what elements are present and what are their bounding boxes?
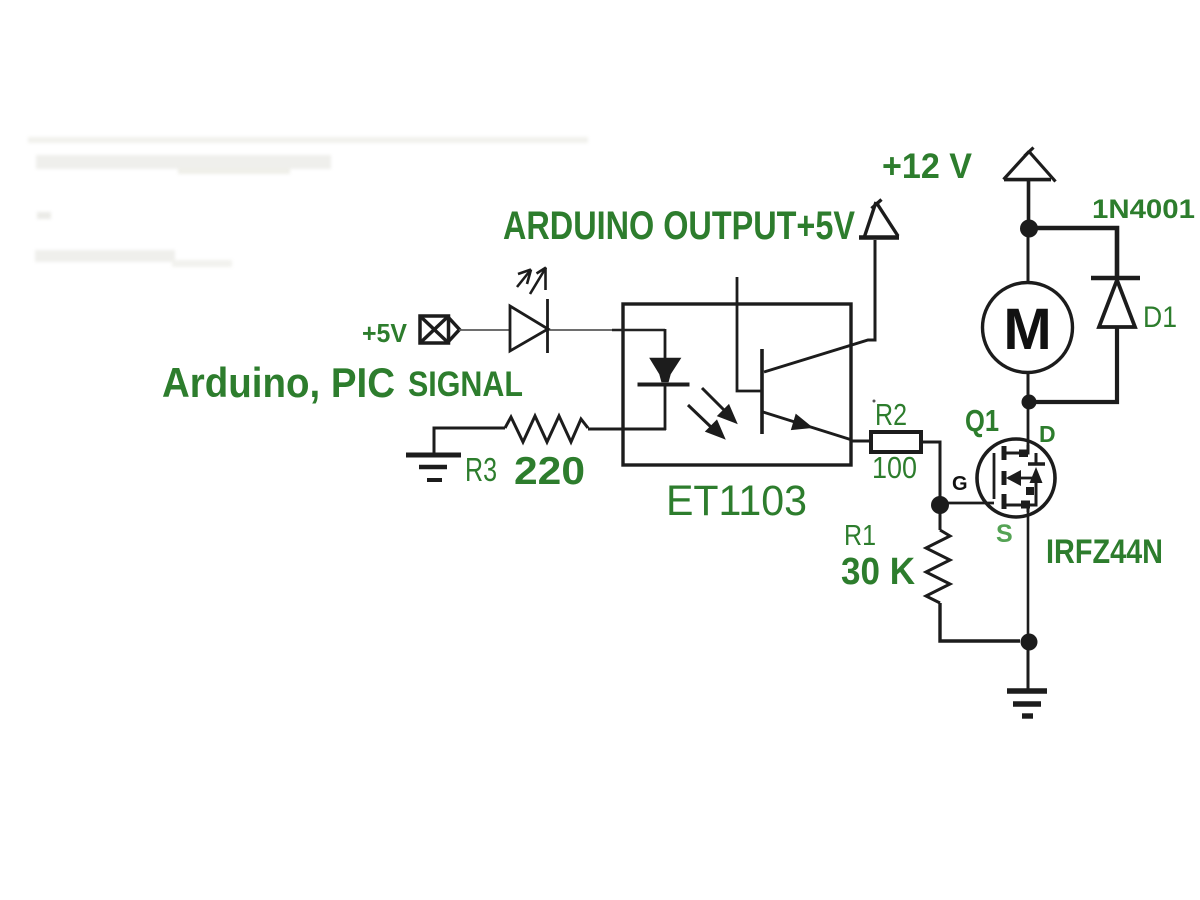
wire ground to R3 bbox=[434, 428, 505, 453]
svg-text:220: 220 bbox=[514, 450, 585, 493]
node motor-top junction bbox=[1020, 220, 1038, 238]
svg-text:1N4001: 1N4001 bbox=[1092, 194, 1195, 224]
Q1 body diode bbox=[1030, 467, 1043, 483]
emitter arrowhead bbox=[792, 415, 813, 430]
wire opto emitter to R2 bbox=[851, 440, 871, 443]
wire R2 to gate junction bbox=[922, 442, 940, 497]
faint scan smudges (decorative) bbox=[28, 137, 588, 267]
svg-text:IRFZ44N: IRFZ44N bbox=[1046, 533, 1163, 571]
wire motor to motor-bottom junction bbox=[1027, 372, 1030, 402]
svg-text:+12 V: +12 V bbox=[882, 147, 973, 186]
svg-text:R1: R1 bbox=[844, 520, 876, 552]
wire junction to diode D1 cathode bbox=[1028, 228, 1117, 277]
diode D1 bbox=[1091, 278, 1140, 327]
wire R1 to source junction bbox=[940, 603, 1020, 641]
svg-text:ARDUINO OUTPUT+5V: ARDUINO OUTPUT+5V bbox=[503, 204, 855, 248]
wire +12V flag to motor-top junction bbox=[1027, 180, 1031, 228]
wire terminal to LED bbox=[459, 329, 510, 331]
Q1 body arrow bbox=[1006, 470, 1021, 486]
LED emission arrows bbox=[517, 268, 546, 295]
Q1 corner blobs bbox=[1019, 450, 1028, 458]
power flag +12V bbox=[1004, 148, 1056, 182]
optocoupler U1 package bbox=[623, 304, 851, 465]
wire +5V flag to opto collector bbox=[764, 240, 875, 372]
resistor R2 bbox=[871, 432, 921, 452]
wire source junction to ground bbox=[1027, 642, 1030, 691]
wire R3 to opto cathode bbox=[588, 428, 666, 431]
motor M bbox=[983, 283, 1073, 373]
svg-text:R2: R2 bbox=[875, 397, 907, 432]
svg-text:30 K: 30 K bbox=[841, 551, 916, 593]
svg-text:D1: D1 bbox=[1143, 301, 1177, 334]
svg-text:Arduino, PIC: Arduino, PIC bbox=[162, 359, 395, 406]
svg-text:S: S bbox=[996, 520, 1013, 548]
svg-text:G: G bbox=[952, 473, 968, 495]
power flag +5V arduino output bbox=[859, 200, 899, 238]
svg-text:ET1103: ET1103 bbox=[666, 477, 807, 525]
resistor R3 bbox=[505, 416, 588, 442]
transistor Q1 body circle bbox=[977, 439, 1055, 517]
svg-text:100: 100 bbox=[872, 450, 917, 485]
svg-text:+5V: +5V bbox=[362, 318, 408, 348]
wire motor-bottom junction to Q1 drain bbox=[1027, 402, 1030, 453]
wire diode anode down to motor-bottom junction bbox=[1029, 327, 1117, 402]
label +12 V supply bbox=[882, 147, 973, 186]
ground output side bbox=[1007, 691, 1047, 716]
wire gate junction to Q1 gate bbox=[940, 502, 994, 505]
svg-text:SIGNAL: SIGNAL bbox=[408, 365, 523, 404]
node gate junction bbox=[931, 496, 949, 514]
opto internal LED bbox=[638, 359, 690, 431]
light arrows inside opto bbox=[688, 388, 735, 437]
wire opto anode entry bbox=[548, 329, 614, 331]
wire gate junction down to R1 bbox=[939, 505, 942, 530]
transistor Q1 internals bbox=[994, 445, 1045, 512]
wire motor-top junction to motor bbox=[1027, 228, 1030, 283]
svg-text:R3: R3 bbox=[465, 451, 497, 488]
resistor R1 bbox=[926, 530, 950, 603]
svg-text:Q1: Q1 bbox=[965, 403, 999, 438]
terminal +5V input bbox=[420, 316, 460, 343]
ground input side bbox=[406, 455, 461, 480]
indicator LED bbox=[510, 299, 548, 353]
svg-text:D: D bbox=[1039, 421, 1056, 447]
node source junction bbox=[1021, 634, 1038, 651]
node motor-bottom junction bbox=[1022, 395, 1037, 410]
wire Q1 source down to source junction bbox=[1027, 512, 1030, 642]
opto phototransistor bbox=[737, 277, 852, 440]
svg-text:M: M bbox=[1003, 297, 1051, 362]
